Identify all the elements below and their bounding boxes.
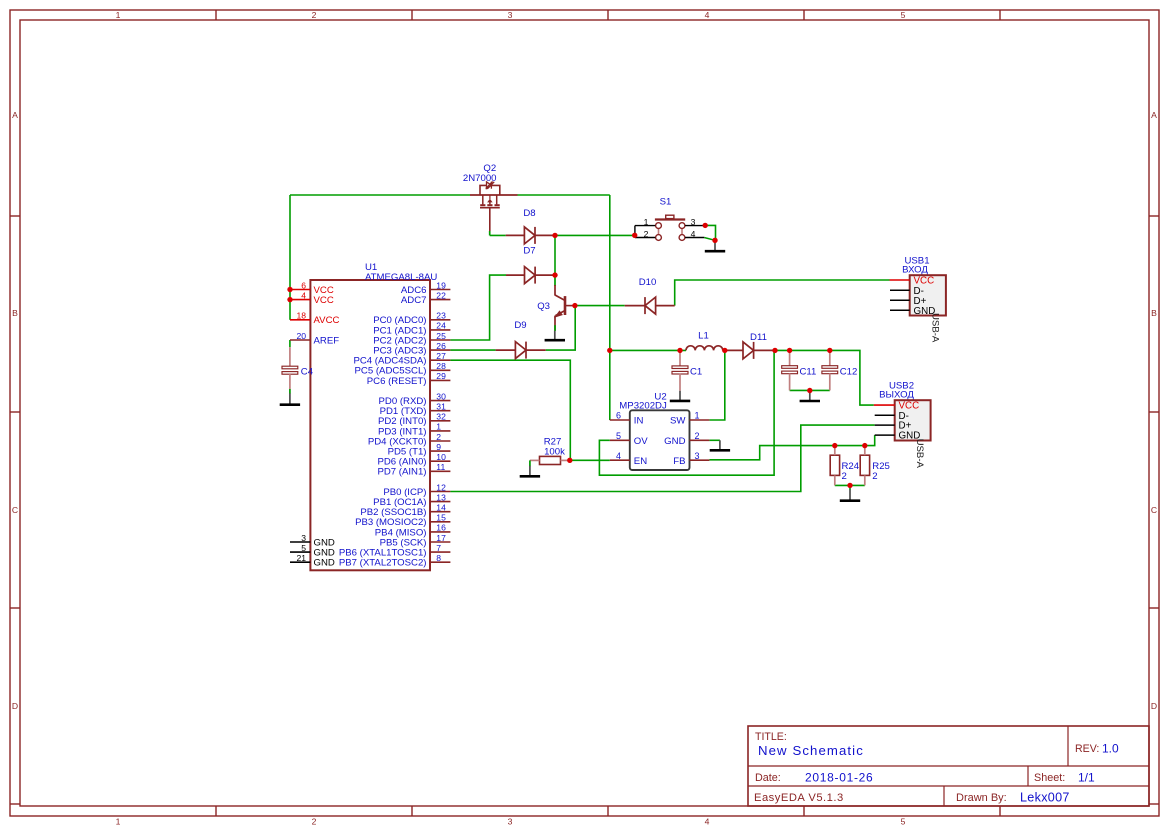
U1 pin 9 PD5 (T1) [388, 442, 451, 458]
U1 pin 6 VCC [290, 280, 334, 296]
svg-text:IN: IN [634, 416, 644, 427]
svg-text:31: 31 [436, 402, 446, 412]
wire D11 out rail [775, 350, 874, 405]
svg-text:5: 5 [901, 10, 906, 20]
svg-text:C1: C1 [690, 366, 702, 377]
svg-text:C: C [12, 505, 18, 515]
wire PB0 to USB2 D+ [450, 425, 874, 491]
svg-text:PB7 (XTAL2TOSC2): PB7 (XTAL2TOSC2) [339, 558, 427, 569]
wire PC2 to D7 [450, 275, 506, 340]
U1 pin 26 PC3 (ADC3) [373, 341, 450, 357]
svg-text:Lekx007: Lekx007 [1020, 791, 1070, 805]
svg-text:L1: L1 [698, 330, 709, 341]
svg-text:29: 29 [436, 371, 446, 381]
svg-text:D11: D11 [750, 332, 767, 343]
wire U2 gnd stub [709, 439, 720, 441]
svg-text:AVCC: AVCC [314, 315, 340, 326]
svg-text:4: 4 [705, 817, 710, 827]
svg-text:23: 23 [436, 311, 446, 321]
svg-text:EasyEDA V5.1.3: EasyEDA V5.1.3 [754, 792, 844, 804]
svg-text:Sheet:: Sheet: [1034, 772, 1065, 784]
svg-text:2: 2 [644, 229, 649, 239]
svg-text:New Schematic: New Schematic [758, 743, 864, 758]
svg-text:18: 18 [296, 311, 306, 321]
svg-text:GND: GND [664, 436, 685, 447]
svg-text:8: 8 [436, 553, 441, 563]
svg-text:EN: EN [634, 456, 647, 467]
svg-text:11: 11 [436, 462, 445, 472]
U1 pin 3 GND [290, 533, 335, 549]
svg-text:TITLE:: TITLE: [755, 731, 787, 743]
wire OV sense loop [599, 350, 774, 475]
svg-text:1: 1 [116, 10, 121, 20]
wire D10 to USB1 VCC [675, 280, 890, 306]
ground C11 C12 [800, 391, 820, 402]
svg-text:1: 1 [116, 817, 121, 827]
svg-text:4: 4 [705, 10, 710, 20]
svg-text:USB-A: USB-A [914, 439, 925, 469]
switch S1 [635, 197, 705, 241]
svg-text:A: A [1151, 110, 1157, 120]
svg-text:2018-01-26: 2018-01-26 [805, 771, 873, 785]
svg-text:5: 5 [616, 431, 621, 441]
svg-text:C4: C4 [301, 366, 314, 377]
svg-text:2: 2 [694, 431, 699, 441]
svg-text:ВХОД: ВХОД [902, 264, 928, 275]
wire D8 junction down to D7 junction [554, 235, 556, 275]
U2 pin 2 GND [664, 431, 709, 447]
U2 pin 1 SW [670, 411, 709, 427]
wire R27 to EN [570, 459, 610, 461]
svg-text:D7: D7 [523, 245, 535, 256]
svg-text:22: 22 [436, 290, 446, 300]
wire left VCC riser [289, 195, 291, 320]
U1 pin 21 GND [290, 553, 335, 569]
svg-text:C: C [1151, 505, 1157, 515]
wire C11 C12 gnd link [790, 389, 830, 391]
svg-text:VCC: VCC [314, 295, 334, 306]
svg-text:C12: C12 [840, 366, 858, 377]
svg-text:4: 4 [301, 290, 306, 300]
capacitor C4 [282, 347, 314, 394]
svg-text:B: B [12, 308, 18, 318]
svg-text:5: 5 [301, 543, 306, 553]
svg-text:3: 3 [508, 817, 513, 827]
U1 pin 32 PD2 (INT0) [378, 412, 450, 428]
U2 pin 6 IN [610, 411, 644, 427]
connector USB1 ВХОД [890, 255, 946, 343]
svg-text:27: 27 [436, 351, 446, 361]
svg-text:10: 10 [436, 452, 446, 462]
svg-text:Date:: Date: [755, 772, 781, 784]
svg-text:ADC7: ADC7 [401, 295, 427, 306]
transistor Q3 [537, 275, 575, 331]
wire PC3 to D9 [450, 349, 495, 351]
U1 pin 31 PD1 (TXD) [380, 402, 451, 418]
ground R27 [520, 466, 540, 477]
svg-text:20: 20 [296, 331, 306, 341]
svg-text:3: 3 [508, 10, 513, 20]
svg-text:OV: OV [634, 436, 648, 447]
svg-text:MP3202DJ: MP3202DJ [619, 400, 667, 411]
svg-text:D: D [12, 701, 18, 711]
svg-text:15: 15 [436, 513, 446, 523]
wire S1 pin3 corner [704, 225, 715, 240]
resistor R25 2 [860, 446, 890, 486]
wire PC4 down to EN node [450, 360, 570, 460]
U1 pin 12 PB0 (ICP) [383, 482, 450, 498]
svg-text:19: 19 [436, 280, 446, 290]
svg-text:4: 4 [691, 229, 696, 239]
U1 pin 1 PD3 (INT1) [378, 422, 450, 438]
svg-text:3: 3 [301, 533, 306, 543]
svg-text:1: 1 [436, 422, 441, 432]
U1 pin 25 PC2 (ADC2) [373, 331, 450, 347]
svg-text:D9: D9 [514, 320, 526, 331]
U1 pin 16 PB4 (MISO) [375, 523, 451, 539]
svg-text:PC6 (RESET): PC6 (RESET) [367, 376, 427, 387]
U2 pin 4 EN [610, 451, 647, 467]
U1 pin 29 PC6 (RESET) [367, 371, 451, 387]
svg-text:PD7 (AIN1): PD7 (AIN1) [377, 467, 426, 478]
svg-text:17: 17 [436, 533, 446, 543]
junction dots [287, 223, 867, 488]
svg-text:1/1: 1/1 [1078, 771, 1095, 785]
svg-text:2: 2 [842, 471, 847, 482]
ground Q3 emitter [545, 331, 565, 340]
wire FB to divider [709, 435, 874, 460]
U2 pin 3 FB [673, 451, 709, 467]
U1 pin 18 AVCC [290, 311, 340, 327]
svg-text:32: 32 [436, 412, 446, 422]
U1 pin 11 PD7 (AIN1) [377, 462, 450, 478]
svg-text:14: 14 [436, 503, 446, 513]
svg-text:1: 1 [694, 411, 699, 421]
svg-text:28: 28 [436, 361, 446, 371]
svg-text:3: 3 [691, 217, 696, 227]
svg-text:4: 4 [616, 451, 621, 461]
wire D8 to S1 [555, 234, 635, 236]
svg-text:D10: D10 [639, 277, 657, 288]
wire SW to L1 right [709, 350, 724, 420]
svg-text:30: 30 [436, 391, 446, 401]
U1 pin 15 PB3 (MOSIOC2) [355, 513, 450, 529]
svg-text:2: 2 [312, 817, 317, 827]
svg-text:REV:: REV: [1075, 743, 1099, 755]
U2 pin 5 OV [610, 431, 648, 447]
wire D9 to Q3 base [546, 306, 576, 351]
svg-text:12: 12 [436, 482, 446, 492]
svg-text:13: 13 [436, 492, 446, 502]
U1 pin 28 PC5 (ADC5SCL) [355, 361, 451, 377]
U1 pin 10 PD6 (AIN0) [377, 452, 450, 468]
U1 pin 2 PD4 (XCKT0) [368, 432, 451, 448]
wire top VCC rail [290, 194, 610, 196]
connector USB2 ВЫХОД [874, 380, 931, 468]
inductor L1 [686, 330, 723, 350]
U1 pin 22 ADC7 [401, 290, 450, 306]
svg-text:6: 6 [301, 280, 306, 290]
svg-text:16: 16 [436, 523, 446, 533]
svg-text:USB-A: USB-A [930, 313, 941, 343]
svg-text:D8: D8 [523, 208, 535, 219]
ground R24 R25 [840, 490, 860, 501]
svg-text:ATMEGA8L-8AU: ATMEGA8L-8AU [365, 272, 437, 283]
capacitor C12 [822, 350, 857, 390]
resistor R27 100k [530, 436, 570, 466]
svg-text:A: A [12, 110, 18, 120]
resistor R24 2 [830, 446, 860, 486]
capacitor C11 [782, 350, 817, 390]
U1 pin 20 AREF [290, 331, 339, 347]
U1 pin 27 PC4 (ADC4SDA) [353, 351, 450, 367]
svg-text:2: 2 [872, 471, 877, 482]
U1 pin 5 GND [290, 543, 335, 559]
svg-text:5: 5 [901, 817, 906, 827]
diode D9 [496, 320, 546, 358]
capacitor C1 [672, 350, 702, 390]
svg-text:9: 9 [436, 442, 441, 452]
svg-text:FB: FB [673, 456, 685, 467]
diode D7 [506, 245, 555, 283]
wire Q2 gate to D8 [490, 231, 506, 235]
diode D8 [506, 208, 555, 244]
svg-text:D: D [1151, 701, 1157, 711]
svg-text:1: 1 [644, 217, 649, 227]
title block [748, 726, 1149, 806]
wire main riser to U2 IN [609, 195, 611, 420]
svg-text:21: 21 [296, 553, 306, 563]
svg-text:3: 3 [694, 451, 699, 461]
svg-text:GND: GND [314, 558, 335, 569]
svg-text:C11: C11 [800, 366, 817, 377]
U1 pin 13 PB1 (OC1A) [373, 492, 450, 508]
diode D11 [725, 332, 775, 359]
diode D10 [625, 277, 675, 314]
U1 pin 30 PD0 (RXD) [379, 391, 451, 407]
wire Q3 base to D10 [575, 305, 625, 307]
U1 pin 17 PB5 (SCK) [380, 533, 451, 549]
ground C4 [280, 393, 300, 404]
svg-text:2: 2 [436, 432, 441, 442]
svg-text:6: 6 [616, 411, 621, 421]
IC U2 MP3202DJ body [619, 391, 689, 470]
svg-text:Drawn By:: Drawn By: [956, 792, 1007, 804]
svg-text:26: 26 [436, 341, 446, 351]
svg-text:7: 7 [436, 543, 441, 553]
IC U1 ATMEGA8L-8AU body [310, 262, 437, 570]
U1 pin 7 PB6 (XTAL1TOSC1) [339, 543, 451, 559]
U1 pin 24 PC1 (ADC1) [373, 321, 450, 337]
transistor Q2 2N7000 [463, 163, 518, 231]
svg-text:100k: 100k [544, 446, 565, 457]
svg-text:S1: S1 [660, 197, 672, 208]
U1 pin 8 PB7 (XTAL2TOSC2) [339, 553, 451, 569]
U1 pin 4 VCC [290, 290, 334, 306]
svg-text:25: 25 [436, 331, 446, 341]
svg-text:1.0: 1.0 [1102, 742, 1119, 756]
svg-text:ВЫХОД: ВЫХОД [879, 389, 914, 400]
wire AREF to C4 [289, 340, 291, 347]
wire node to L1 [610, 349, 686, 351]
U1 pin 23 PC0 (ADC0) [373, 311, 450, 327]
svg-text:2: 2 [312, 10, 317, 20]
svg-text:24: 24 [436, 321, 446, 331]
U1 pin 19 ADC6 [401, 280, 450, 296]
svg-text:AREF: AREF [314, 335, 340, 346]
ground U2 pin2 [710, 440, 730, 450]
wire R24 R25 bottom [835, 485, 865, 490]
svg-text:Q3: Q3 [537, 301, 550, 312]
ground S1 [705, 240, 725, 251]
svg-text:SW: SW [670, 416, 686, 427]
ground C1 [670, 391, 690, 401]
svg-text:B: B [1151, 308, 1157, 318]
U1 pin 14 PB2 (SSOC1B) [360, 503, 450, 519]
